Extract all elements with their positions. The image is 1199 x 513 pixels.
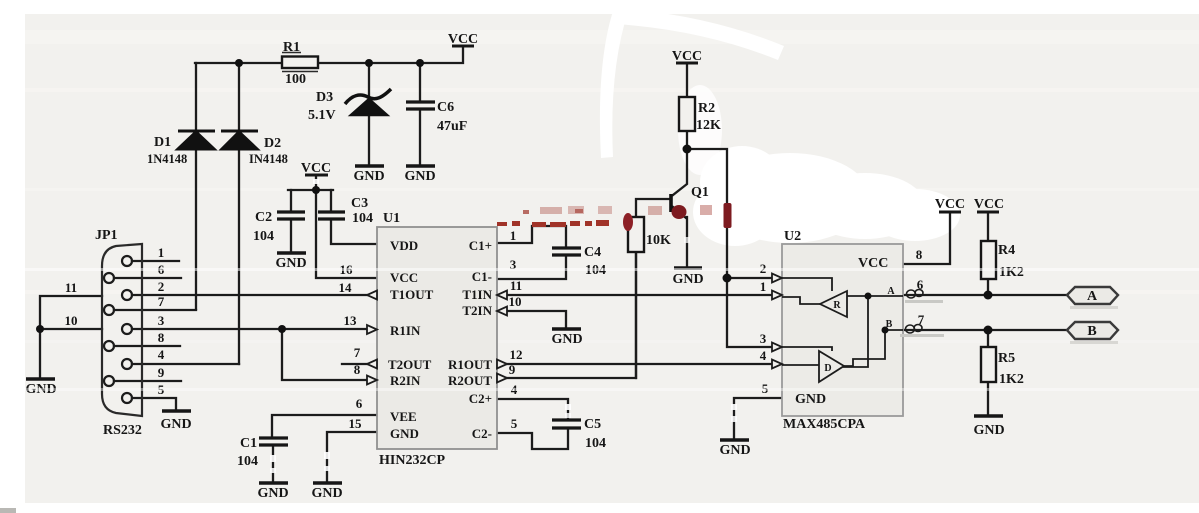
svg-text:GND: GND	[353, 169, 384, 184]
svg-text:2: 2	[158, 279, 165, 294]
svg-text:R1IN: R1IN	[390, 323, 421, 338]
svg-text:GND: GND	[973, 423, 1004, 438]
svg-text:R1: R1	[283, 40, 300, 55]
svg-text:R2IN: R2IN	[390, 373, 421, 388]
svg-text:A: A	[1087, 289, 1098, 304]
svg-text:15: 15	[349, 416, 363, 431]
svg-text:JP1: JP1	[95, 228, 118, 243]
svg-text:9: 9	[158, 365, 165, 380]
svg-text:R1OUT: R1OUT	[448, 357, 492, 372]
svg-text:14: 14	[339, 280, 353, 295]
svg-text:GND: GND	[311, 486, 342, 501]
svg-text:R2OUT: R2OUT	[448, 373, 492, 388]
svg-text:A: A	[887, 286, 895, 297]
svg-text:GND: GND	[404, 169, 435, 184]
svg-text:C3: C3	[351, 196, 368, 211]
svg-text:13: 13	[344, 313, 358, 328]
svg-text:R2: R2	[698, 101, 715, 116]
svg-text:104: 104	[253, 229, 274, 244]
svg-text:VCC: VCC	[974, 197, 1004, 212]
svg-text:C2+: C2+	[469, 391, 492, 406]
svg-text:104: 104	[237, 454, 258, 469]
svg-text:GND: GND	[390, 426, 419, 441]
svg-text:D: D	[824, 363, 831, 374]
svg-text:D2: D2	[264, 136, 281, 151]
svg-text:B: B	[886, 319, 893, 330]
svg-text:U2: U2	[784, 229, 801, 244]
svg-text:7: 7	[354, 345, 361, 360]
svg-text:5: 5	[511, 416, 518, 431]
svg-text:1K2: 1K2	[999, 372, 1024, 387]
svg-text:1K2: 1K2	[999, 265, 1024, 280]
svg-text:C5: C5	[584, 417, 601, 432]
svg-text:5.1V: 5.1V	[308, 108, 336, 123]
svg-text:VDD: VDD	[390, 238, 418, 253]
svg-text:C1: C1	[240, 436, 257, 451]
svg-text:10: 10	[509, 294, 522, 309]
svg-text:4: 4	[158, 347, 165, 362]
svg-text:7: 7	[158, 294, 165, 309]
svg-text:3: 3	[760, 331, 767, 346]
svg-text:VCC: VCC	[301, 161, 331, 176]
svg-text:3: 3	[158, 313, 165, 328]
svg-text:VCC: VCC	[390, 270, 418, 285]
svg-text:GND: GND	[160, 417, 191, 432]
svg-text:R4: R4	[998, 243, 1015, 258]
svg-text:10: 10	[65, 313, 78, 328]
svg-text:1: 1	[510, 228, 517, 243]
svg-text:T2IN: T2IN	[462, 303, 492, 318]
svg-text:47uF: 47uF	[437, 119, 467, 134]
svg-text:T2OUT: T2OUT	[388, 357, 432, 372]
svg-text:10K: 10K	[646, 233, 671, 248]
svg-text:VCC: VCC	[935, 197, 965, 212]
svg-text:R5: R5	[998, 351, 1015, 366]
svg-text:IN4148: IN4148	[249, 152, 288, 166]
svg-text:1N4148: 1N4148	[147, 152, 187, 166]
svg-text:C4: C4	[584, 245, 601, 260]
svg-text:6: 6	[356, 396, 363, 411]
svg-text:1: 1	[158, 245, 165, 260]
svg-text:VCC: VCC	[448, 32, 478, 47]
svg-text:C2-: C2-	[472, 426, 492, 441]
svg-text:GND: GND	[795, 392, 826, 407]
svg-text:8: 8	[158, 330, 165, 345]
svg-text:GND: GND	[257, 486, 288, 501]
svg-text:11: 11	[65, 280, 77, 295]
svg-text:9: 9	[509, 362, 516, 377]
svg-text:GND: GND	[719, 443, 750, 458]
svg-text:12: 12	[510, 347, 523, 362]
svg-text:104: 104	[585, 436, 606, 451]
svg-text:C1-: C1-	[472, 269, 492, 284]
svg-text:7: 7	[918, 312, 925, 327]
svg-text:1: 1	[760, 279, 767, 294]
svg-text:HIN232CP: HIN232CP	[379, 453, 446, 468]
svg-text:GND: GND	[672, 272, 703, 287]
svg-text:GND: GND	[551, 332, 582, 347]
svg-text:C6: C6	[437, 100, 454, 115]
svg-text:104: 104	[352, 211, 373, 226]
svg-text:U1: U1	[383, 211, 400, 226]
svg-text:VEE: VEE	[390, 409, 417, 424]
svg-text:4: 4	[760, 348, 767, 363]
svg-text:8: 8	[916, 247, 923, 262]
svg-text:B: B	[1087, 324, 1096, 339]
svg-text:11: 11	[510, 278, 522, 293]
svg-text:8: 8	[354, 362, 361, 377]
svg-text:VCC: VCC	[672, 49, 702, 64]
svg-text:R: R	[833, 300, 841, 311]
svg-text:6: 6	[917, 277, 924, 292]
svg-text:D1: D1	[154, 135, 171, 150]
svg-text:MAX485CPA: MAX485CPA	[783, 417, 866, 432]
svg-text:12K: 12K	[696, 118, 721, 133]
svg-text:T1OUT: T1OUT	[390, 287, 434, 302]
svg-text:100: 100	[285, 72, 306, 87]
svg-text:C2: C2	[255, 210, 272, 225]
svg-text:T1IN: T1IN	[462, 287, 492, 302]
svg-text:RS232: RS232	[103, 423, 142, 438]
svg-text:Q1: Q1	[691, 185, 709, 200]
svg-text:D3: D3	[316, 90, 333, 105]
svg-text:C1+: C1+	[469, 238, 492, 253]
